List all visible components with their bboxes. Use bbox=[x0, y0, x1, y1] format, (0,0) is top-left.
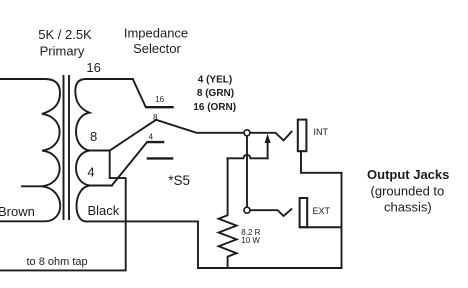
svg-text:Selector: Selector bbox=[133, 41, 181, 56]
svg-text:Output Jacks: Output Jacks bbox=[367, 167, 449, 182]
svg-text:16: 16 bbox=[155, 95, 164, 104]
secondary 8-ohm tap stub bbox=[88, 150, 110, 152]
wire: resistor top with hop over node line bbox=[228, 155, 268, 159]
wire: 8 ohm tap down-step to external line bbox=[0, 151, 126, 271]
wire: INT jack tip spring bbox=[250, 132, 291, 141]
svg-text:5K / 2.5K: 5K / 2.5K bbox=[38, 27, 92, 42]
wire: EXT jack tip spring bbox=[250, 209, 291, 216]
svg-text:4 (YEL): 4 (YEL) bbox=[198, 75, 232, 86]
wire: switch wiper to INT jack node bbox=[156, 120, 244, 133]
svg-text:INT: INT bbox=[314, 127, 329, 137]
switch S5 contact 16 bbox=[146, 106, 174, 108]
transformer core line left bbox=[63, 76, 65, 219]
svg-text:4: 4 bbox=[149, 133, 154, 142]
svg-text:4: 4 bbox=[87, 165, 94, 180]
switch S5 unused contact bbox=[147, 157, 174, 159]
wire: 16 tap diagonal to switch contact bbox=[133, 79, 146, 107]
wire: Black lead to ground bus bbox=[86, 221, 198, 268]
svg-text:Brown: Brown bbox=[0, 204, 35, 219]
svg-text:8: 8 bbox=[90, 129, 97, 144]
jack J1 INT barrel bbox=[298, 120, 307, 152]
svg-text:Primary: Primary bbox=[40, 44, 85, 59]
node B: EXT tip junction circle bbox=[244, 207, 250, 213]
svg-text:8 (GRN): 8 (GRN) bbox=[197, 88, 234, 99]
svg-text:16: 16 bbox=[86, 60, 100, 75]
transformer core line right bbox=[68, 76, 70, 219]
transformer T1 secondary winding bbox=[75, 79, 133, 221]
svg-text:8: 8 bbox=[153, 113, 158, 122]
ground bus wire bbox=[198, 267, 342, 269]
svg-text:chassis): chassis) bbox=[384, 200, 432, 215]
svg-text:EXT: EXT bbox=[313, 206, 331, 216]
svg-text:Impedance: Impedance bbox=[124, 26, 188, 41]
node A: INT tip junction circle bbox=[244, 130, 250, 136]
wire: INT sleeve to ground bbox=[301, 151, 342, 268]
arrow to INT jack tip wire bbox=[267, 142, 269, 158]
resistor R (8.2 ohm 10 W) bbox=[219, 158, 237, 268]
primary tap stub bbox=[22, 185, 42, 187]
svg-text:to 8 ohm tap: to 8 ohm tap bbox=[27, 256, 88, 268]
svg-text:16 (ORN): 16 (ORN) bbox=[193, 102, 236, 113]
wire: 8 tap diagonal to switch wiper bbox=[110, 120, 156, 151]
arrowhead of INT tip arrow bbox=[265, 134, 271, 143]
svg-text:(grounded to: (grounded to bbox=[371, 183, 445, 198]
switch S5 contact 4 bbox=[147, 141, 164, 143]
svg-text:10 W: 10 W bbox=[241, 236, 260, 245]
svg-text:Black: Black bbox=[88, 203, 120, 218]
transformer T1 primary winding bbox=[0, 79, 60, 221]
jack J2 EXT barrel bbox=[300, 198, 308, 227]
secondary 4-ohm tap stub bbox=[88, 185, 112, 187]
wire: node to node vertical bbox=[246, 136, 248, 207]
wire: EXT sleeve to ground bus bbox=[300, 226, 342, 228]
svg-text:*S5: *S5 bbox=[168, 173, 190, 188]
wire: 4 tap diagonal to switch contact bbox=[112, 142, 147, 185]
